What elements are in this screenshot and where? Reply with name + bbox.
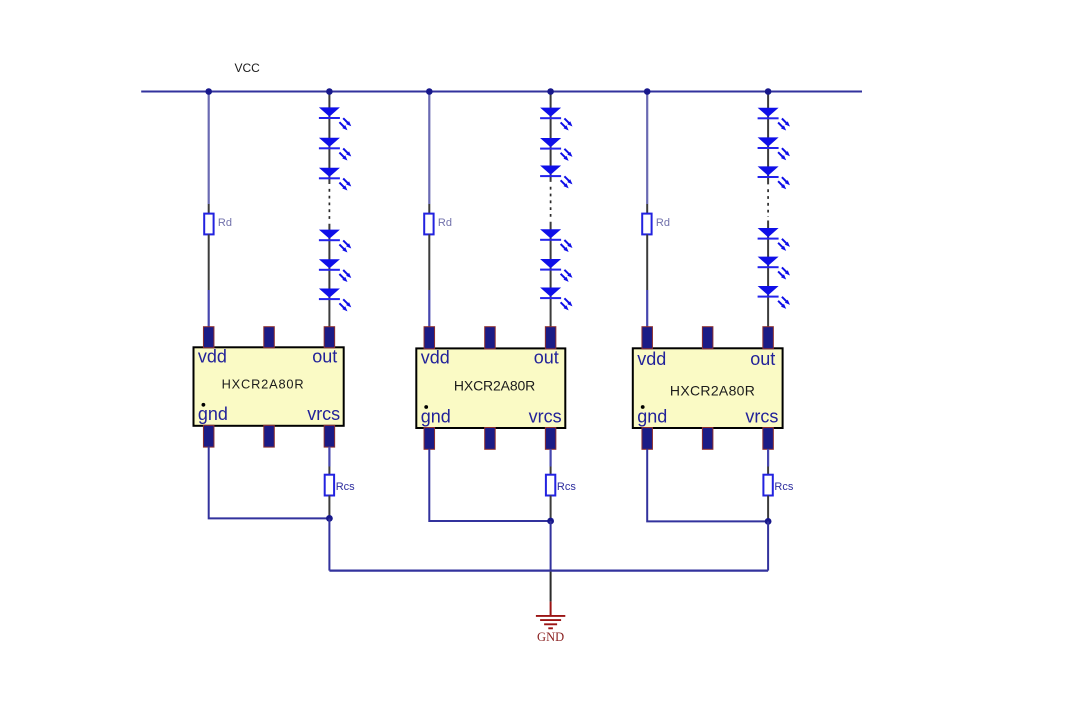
pin-1 marker dot (unit 1) [202, 403, 206, 407]
pin nc-top top (unit 3) [702, 327, 713, 349]
pin gnd bottom (unit 1) [203, 425, 214, 447]
driver IC U3 HXCR2A80R body [633, 348, 783, 428]
LED D23 [540, 166, 574, 190]
wire into Rcs (unit 2) [550, 467, 552, 475]
LED D13 [319, 168, 353, 192]
svg-text:gnd: gnd [421, 406, 451, 426]
svg-text:Rcs: Rcs [336, 481, 355, 493]
pin gnd bottom (unit 2) [424, 428, 435, 450]
LED D32 [758, 137, 792, 161]
LED D34 [758, 228, 792, 252]
wire ground bus to ground symbol [550, 572, 552, 602]
LED D11 [319, 107, 353, 131]
pin out top (unit 2) [545, 327, 556, 349]
resistor Rd (unit 3) [642, 214, 651, 235]
wire to vdd pin (unit 2) [428, 290, 430, 328]
wire sense node to ground bus (unit 1) [328, 518, 330, 570]
pin nc-top top (unit 2) [485, 327, 496, 349]
wire Rcs bottom (unit 1) [328, 496, 330, 519]
wire VCC rail to LED string (unit 2) [550, 92, 552, 182]
wire VCC rail to Rd (unit 1) [208, 92, 210, 205]
LED D36 [758, 286, 792, 310]
LED D21 [540, 108, 574, 132]
dashed wire omitted LEDs (unit 1) [328, 189, 330, 220]
svg-text:out: out [534, 348, 559, 368]
resistor Rcs (unit 2) [546, 475, 555, 496]
resistor Rd (unit 2) [424, 214, 433, 235]
node VCC/LED junction (unit 2) [547, 88, 554, 95]
wire into Rd top (unit 2) [428, 204, 430, 214]
wire Rd bottom (unit 2) [428, 234, 430, 290]
wire into Rcs (unit 1) [328, 467, 330, 475]
pin vdd top (unit 1) [203, 327, 214, 348]
node VCC/Rd junction (unit 1) [205, 88, 212, 95]
svg-text:HXCR2A80R: HXCR2A80R [222, 376, 304, 391]
wire LED string lower (unit 3) [767, 221, 769, 329]
wire into Rd top (unit 3) [646, 204, 648, 214]
VCC rail [141, 90, 862, 92]
pin nc-bottom bottom (unit 3) [702, 428, 713, 450]
svg-text:vdd: vdd [198, 347, 227, 367]
LED D24 [540, 229, 574, 253]
wire Rcs bottom (unit 3) [767, 496, 769, 522]
wire vrcs pin down (unit 3) [767, 449, 769, 467]
wire VCC rail to Rd (unit 3) [646, 92, 648, 205]
pin vdd top (unit 3) [642, 327, 653, 349]
pin out top (unit 1) [324, 327, 335, 348]
wire gnd pin down to sense node (unit 2) [429, 449, 550, 521]
wire to vdd pin (unit 3) [646, 290, 648, 328]
svg-text:Rd: Rd [656, 217, 670, 229]
wire gnd pin down to sense node (unit 1) [209, 447, 330, 519]
driver IC U1 HXCR2A80R body [194, 347, 344, 426]
wire VCC rail to LED string (unit 1) [328, 92, 330, 185]
LED D22 [540, 138, 574, 162]
pin nc-bottom bottom (unit 1) [264, 425, 275, 447]
pin gnd bottom (unit 3) [642, 428, 653, 450]
wire to vdd pin (unit 1) [208, 290, 210, 328]
pin vdd top (unit 2) [424, 327, 435, 349]
LED D35 [758, 257, 792, 281]
node sense junction (unit 3) [765, 518, 772, 525]
node VCC/Rd junction (unit 2) [426, 88, 433, 95]
wire Rd bottom (unit 3) [646, 234, 648, 290]
node sense junction (unit 2) [547, 518, 554, 525]
svg-text:out: out [750, 349, 775, 369]
wire red into ground symbol [550, 602, 552, 616]
svg-text:out: out [312, 347, 337, 367]
pin vrcs bottom (unit 2) [545, 428, 556, 450]
driver IC U2 HXCR2A80R body [416, 348, 565, 428]
svg-text:Rcs: Rcs [774, 481, 793, 493]
svg-text:HXCR2A80R: HXCR2A80R [670, 382, 755, 398]
svg-text:vdd: vdd [637, 349, 666, 369]
wire sense node to ground bus (unit 2) [550, 521, 552, 571]
pin nc-top top (unit 1) [264, 327, 275, 348]
svg-text:vdd: vdd [421, 348, 450, 368]
LED D25 [540, 259, 574, 283]
svg-text:Rd: Rd [218, 217, 232, 229]
node VCC/Rd junction (unit 3) [644, 88, 651, 95]
wire vrcs pin down (unit 2) [549, 449, 551, 467]
svg-text:vrcs: vrcs [529, 406, 562, 426]
wire vrcs pin down (unit 1) [328, 447, 330, 467]
pin nc-bottom bottom (unit 2) [485, 428, 496, 450]
ground bus [329, 569, 768, 571]
resistor Rcs (unit 3) [763, 475, 772, 496]
wire LED string lower (unit 1) [328, 224, 330, 328]
resistor Rd (unit 1) [204, 214, 213, 235]
ground symbol [536, 616, 565, 628]
LED D15 [319, 259, 353, 283]
LED D14 [319, 230, 353, 254]
dashed wire omitted LEDs (unit 2) [550, 187, 552, 218]
node VCC/LED junction (unit 1) [326, 88, 333, 95]
svg-text:vrcs: vrcs [307, 404, 340, 424]
svg-text:vrcs: vrcs [745, 406, 778, 426]
svg-text:GND: GND [537, 630, 564, 644]
pin-1 marker dot (unit 3) [641, 405, 645, 409]
LED D12 [319, 138, 353, 162]
node VCC/LED junction (unit 3) [765, 88, 772, 95]
svg-text:gnd: gnd [198, 404, 228, 424]
wire into Rd top (unit 1) [208, 204, 210, 214]
LED D16 [319, 289, 353, 313]
wire Rd bottom (unit 1) [208, 234, 210, 290]
pin out top (unit 3) [763, 327, 774, 349]
LED D33 [758, 166, 792, 190]
wire Rcs bottom (unit 2) [550, 496, 552, 522]
wire gnd pin down to sense node (unit 3) [647, 449, 768, 521]
pin vrcs bottom (unit 1) [324, 425, 335, 447]
pin-1 marker dot (unit 2) [424, 405, 428, 409]
wire VCC rail to Rd (unit 2) [428, 92, 430, 205]
LED D26 [540, 288, 574, 312]
wire into Rcs (unit 3) [767, 467, 769, 475]
svg-text:gnd: gnd [637, 406, 667, 426]
wire sense node to ground bus (unit 3) [767, 521, 769, 570]
svg-text:Rd: Rd [438, 217, 452, 229]
wire VCC rail to LED string (unit 3) [767, 92, 769, 185]
LED D31 [758, 108, 792, 132]
node sense junction (unit 1) [326, 515, 333, 522]
resistor Rcs (unit 1) [325, 475, 334, 496]
pin vrcs bottom (unit 3) [763, 428, 774, 450]
wire LED string lower (unit 2) [550, 222, 552, 328]
svg-text:Rcs: Rcs [557, 481, 576, 493]
dashed wire omitted LEDs (unit 3) [767, 189, 769, 217]
svg-text:HXCR2A80R: HXCR2A80R [454, 378, 535, 394]
svg-text:VCC: VCC [235, 61, 261, 75]
